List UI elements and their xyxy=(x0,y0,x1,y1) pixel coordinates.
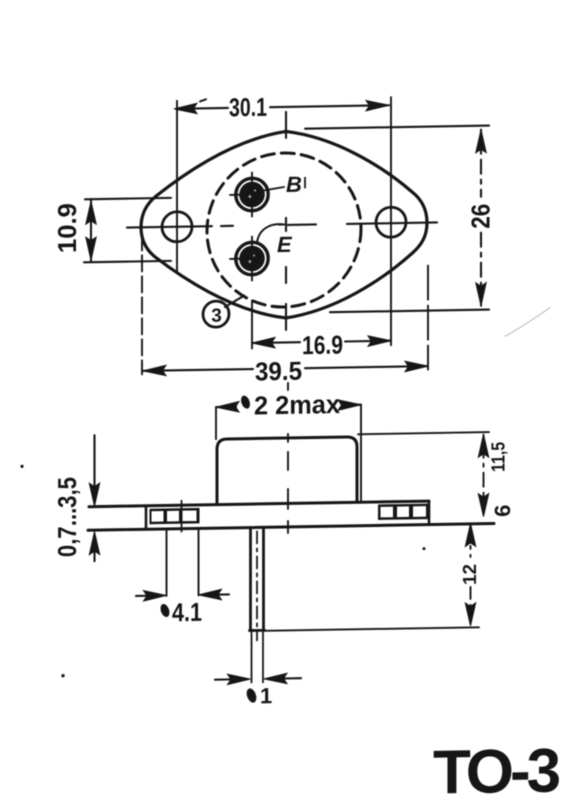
dia symbol for 4.1 xyxy=(159,603,171,619)
svg-text:E: E xyxy=(277,232,293,257)
right hole vertical crosshair / extension to 30.1 and 16.9 xyxy=(390,97,392,345)
dimension 26: arrows xyxy=(476,130,486,153)
can outline dashed circle xyxy=(207,152,361,309)
dimension 39.5: arrows xyxy=(143,365,166,376)
dimension dia 22 max: line xyxy=(216,405,361,407)
hole hidden lines below flange (for dia 4.1) xyxy=(167,530,199,596)
dimension 26: line (dash-dot) xyxy=(480,130,482,306)
dimension 16.9: extension line left (pin axis) xyxy=(251,301,253,349)
svg-text:4.1: 4.1 xyxy=(172,597,202,627)
left hole vertical crosshair / 30.1 extension line xyxy=(176,101,178,272)
center pin (side view) xyxy=(250,527,265,630)
svg-text:3: 3 xyxy=(211,306,222,327)
svg-text:TO-3: TO-3 xyxy=(433,736,560,800)
svg-text:6: 6 xyxy=(490,504,515,517)
hole centerline tick xyxy=(181,501,183,534)
small artifact tick right of B xyxy=(304,178,306,188)
horizontal centerline xyxy=(127,222,437,227)
svg-text:2 2max: 2 2max xyxy=(254,389,341,420)
left mounting hole xyxy=(162,212,192,242)
dimension 16.9: line xyxy=(252,341,391,343)
dimension 10.9: line xyxy=(90,199,92,262)
dimension 30.1: arrows xyxy=(174,103,197,114)
flange top surface line xyxy=(89,501,429,507)
svg-text:26: 26 xyxy=(466,203,496,228)
svg-text:10.9: 10.9 xyxy=(52,203,82,253)
circled 3 leader line xyxy=(225,296,244,307)
pin E crosshair xyxy=(230,237,252,281)
svg-text:0,7...3,5: 0,7...3,5 xyxy=(52,477,82,557)
can centerline (dash-dot vertical) xyxy=(287,383,289,533)
vertical centerline of can xyxy=(285,112,287,330)
dimension 39.5: line xyxy=(143,366,428,371)
dimension 3,5 arrow (down to flange top) xyxy=(93,435,95,488)
dimension 39.5: extension lines xyxy=(141,234,143,374)
circled 3 xyxy=(203,301,229,327)
pin B xyxy=(236,178,268,211)
flange right step edge xyxy=(428,501,431,525)
dimension 10.9: arrows xyxy=(86,201,96,224)
dimension 26: extension lines xyxy=(305,126,489,313)
dimension 12: line (dash-dot) xyxy=(470,528,472,623)
dimension dia 4.1: line and arrows xyxy=(136,594,229,596)
can body (side view) xyxy=(217,437,357,504)
pin extension lines below xyxy=(252,632,264,682)
dimension 10.9: extension lines xyxy=(84,198,171,262)
flange bottom surface line xyxy=(88,524,494,531)
leader curve from centerline to pin E xyxy=(257,224,284,242)
svg-text:16.9: 16.9 xyxy=(302,330,343,361)
dia 22 arrows xyxy=(216,402,239,413)
artifact tick above 30.1 xyxy=(200,99,206,101)
extension line can top to 11,5 xyxy=(358,432,489,434)
pin E xyxy=(236,242,268,275)
dimension 16.9: arrows xyxy=(252,337,275,348)
left mounting hole region (hatched band with windows) xyxy=(150,508,200,524)
flange outline (TO-3 diamond) xyxy=(141,129,427,320)
pin centerline xyxy=(256,531,258,640)
dimension dia 1: line and arrows xyxy=(215,678,301,679)
dia 22 extension lines xyxy=(216,405,361,503)
svg-text:39.5: 39.5 xyxy=(255,356,302,387)
flange left step edge xyxy=(145,506,148,530)
svg-text:12: 12 xyxy=(460,564,481,585)
svg-text:30.1: 30.1 xyxy=(229,92,267,123)
right mounting hole region (hatched band with windows) xyxy=(378,504,430,520)
dimension 11,5: line (dash-dot) xyxy=(483,435,485,513)
svg-text:B: B xyxy=(286,172,302,197)
svg-text:1: 1 xyxy=(260,683,272,708)
svg-text:11,5: 11,5 xyxy=(489,441,510,472)
dia symbol for 22 xyxy=(239,394,251,410)
dia symbol for 1 xyxy=(245,687,258,704)
pin B crosshair xyxy=(230,172,284,217)
right mounting hole xyxy=(376,207,406,237)
dimension 0,7 arrow (up to flange bottom) xyxy=(93,548,95,561)
dimension 30.1: line xyxy=(177,105,389,109)
speckle dots xyxy=(20,458,425,678)
extension line pin bottom to 12 xyxy=(264,627,479,631)
faint scratch artifact xyxy=(505,308,550,337)
